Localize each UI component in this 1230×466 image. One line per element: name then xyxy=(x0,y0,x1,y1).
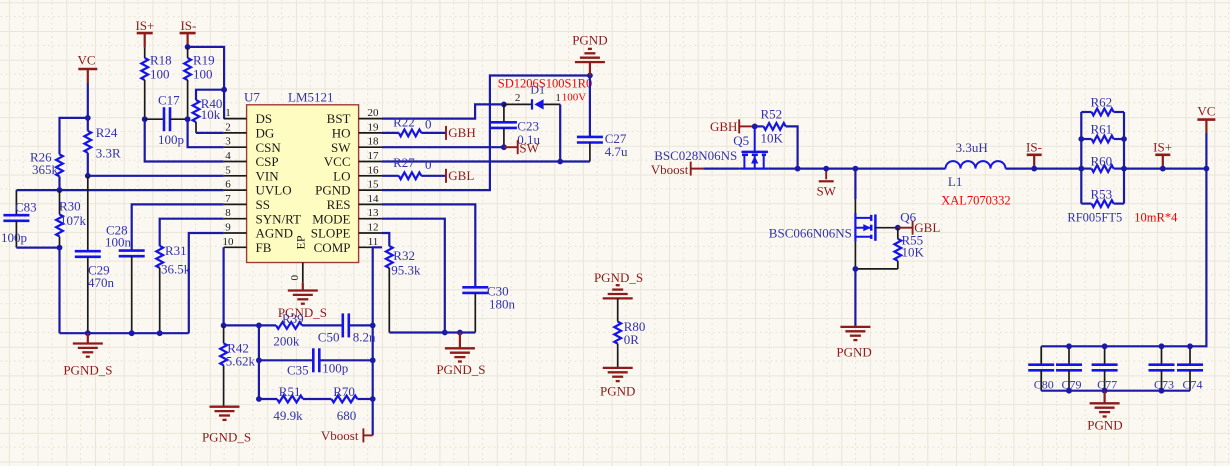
wire HO row (pin 19) xyxy=(382,132,446,134)
svg-text:0R: 0R xyxy=(624,332,640,347)
wire R26 bottom xyxy=(58,176,60,190)
svg-text:GBH: GBH xyxy=(710,119,737,134)
svg-text:10mR*4: 10mR*4 xyxy=(1134,211,1178,225)
capacitor C73 xyxy=(1149,346,1175,391)
svg-text:365k: 365k xyxy=(32,162,59,177)
pin 15 PGND xyxy=(315,179,382,198)
svg-text:HO: HO xyxy=(332,126,351,141)
svg-text:5.62k: 5.62k xyxy=(226,354,256,369)
transistor Q6 xyxy=(769,210,917,242)
svg-text:C17: C17 xyxy=(158,93,180,108)
svg-text:SLOPE: SLOPE xyxy=(311,226,351,241)
power IS- (right) xyxy=(1026,139,1042,168)
svg-text:2: 2 xyxy=(225,121,231,133)
node comp row3 left xyxy=(256,396,262,402)
wire cap bank bottom rail xyxy=(1041,390,1190,392)
node GBH/R52/gate xyxy=(752,124,758,130)
pin 5 VIN xyxy=(224,164,280,183)
svg-text:C80: C80 xyxy=(1034,378,1054,392)
resistor R32 xyxy=(382,233,421,333)
node C77 bottom junction xyxy=(1102,388,1108,394)
wire ground bus xyxy=(60,332,189,334)
D1 part number xyxy=(498,77,592,91)
pin 20 BST xyxy=(327,107,382,126)
resistor R52 xyxy=(755,107,798,169)
diode D1 xyxy=(504,83,561,110)
svg-text:2: 2 xyxy=(515,92,521,104)
node D1/VCC junction xyxy=(557,159,563,165)
wire PGND (pin 15) riser xyxy=(382,76,590,191)
svg-text:EP: EP xyxy=(294,235,308,249)
capacitor C28 xyxy=(105,223,145,334)
svg-text:PGND: PGND xyxy=(572,33,607,48)
wire comp row 3 xyxy=(259,398,373,400)
svg-text:VIN: VIN xyxy=(256,168,280,183)
svg-text:U7: U7 xyxy=(244,90,260,105)
resistor R24 xyxy=(84,118,121,176)
resistor R31 xyxy=(156,243,190,333)
svg-text:R27: R27 xyxy=(393,155,415,170)
pin 13 MODE xyxy=(312,207,382,226)
svg-text:19: 19 xyxy=(368,121,380,133)
node rail ground junction xyxy=(457,330,463,336)
wire R55 to source xyxy=(855,268,897,270)
resistor R26 xyxy=(30,150,63,178)
svg-text:36.5k: 36.5k xyxy=(161,262,191,277)
svg-text:100: 100 xyxy=(193,66,213,81)
pin 17 VCC xyxy=(324,150,382,169)
svg-text:XAL7070332: XAL7070332 xyxy=(941,194,1010,208)
wire row rail to VC xyxy=(1124,168,1206,170)
svg-text:5: 5 xyxy=(225,164,231,176)
svg-text:UVLO: UVLO xyxy=(256,183,292,198)
svg-text:180n: 180n xyxy=(489,297,516,312)
sense resistor value xyxy=(1134,211,1178,225)
svg-text:R32: R32 xyxy=(393,248,415,263)
resistor R18 xyxy=(141,48,171,120)
wire VC to R26 xyxy=(60,118,88,154)
svg-text:VCC: VCC xyxy=(324,154,351,169)
resistor R62 xyxy=(1081,95,1124,116)
pin 9 AGND xyxy=(224,222,293,241)
svg-text:VC: VC xyxy=(77,53,95,68)
wire SYN/RT row (pin 8) xyxy=(160,219,224,246)
wire Q6 source to ground xyxy=(854,269,856,327)
svg-text:BSC066N06NS: BSC066N06NS xyxy=(769,226,852,241)
svg-text:200k: 200k xyxy=(273,334,300,349)
ground PGND (Q6) xyxy=(836,327,871,360)
svg-text:C35: C35 xyxy=(287,363,309,378)
U7 designator xyxy=(244,90,260,105)
svg-text:10K: 10K xyxy=(902,245,925,260)
capacitor C83 xyxy=(1,190,37,248)
wire BST (pin 20) xyxy=(382,104,504,118)
svg-text:R39: R39 xyxy=(282,311,304,326)
node rail left R61 xyxy=(1078,136,1084,142)
wire IS- to DS (pin 1) xyxy=(188,47,225,119)
resistor R51 xyxy=(273,384,303,423)
node VC row junction xyxy=(1204,166,1210,172)
wire Q5 gate xyxy=(754,126,756,151)
svg-text:R24: R24 xyxy=(96,125,118,140)
op-amp U7 LM5121 body xyxy=(247,105,359,263)
node SW/C23 junction xyxy=(501,144,507,150)
svg-text:IS-: IS- xyxy=(1026,139,1042,154)
svg-text:100p: 100p xyxy=(158,132,184,147)
svg-text:4: 4 xyxy=(225,150,231,162)
resistor R22 xyxy=(393,115,431,137)
wire VIN row (pin 5) xyxy=(88,175,224,177)
capacitor C79 xyxy=(1056,346,1082,391)
wire Q6 source xyxy=(854,242,856,269)
ground PGND_S (C30 rail) xyxy=(436,333,485,378)
svg-text:SD1206S100S1R0: SD1206S100S1R0 xyxy=(498,77,592,91)
resistor R42 xyxy=(220,325,255,406)
resistor R55 xyxy=(894,228,924,269)
svg-text:DG: DG xyxy=(256,126,275,141)
power VC (left) xyxy=(77,53,97,84)
svg-text:3: 3 xyxy=(225,136,231,148)
pin 19 HO xyxy=(332,121,382,140)
capacitor C80 xyxy=(1028,346,1054,391)
capacitor C30 xyxy=(462,284,515,333)
pin 3 CSN xyxy=(224,136,282,155)
svg-text:10k: 10k xyxy=(201,107,221,122)
capacitor C50 xyxy=(318,313,376,344)
node rail right R60 xyxy=(1121,166,1127,172)
node DS/R40 junction xyxy=(221,87,227,93)
node R30/C83 junction xyxy=(57,245,63,251)
capacitor C74 xyxy=(1177,346,1203,391)
transistor Q5 xyxy=(654,133,769,169)
wire AGND row (pin 9) xyxy=(189,233,224,333)
svg-text:BST: BST xyxy=(327,111,351,126)
node IS- row junction xyxy=(1031,166,1037,172)
ground PGND_S (bus) xyxy=(63,333,112,377)
svg-text:IS-: IS- xyxy=(180,18,196,33)
svg-text:GBL: GBL xyxy=(448,168,474,183)
wire FB (pin 10) drop xyxy=(223,247,225,325)
svg-text:13: 13 xyxy=(368,207,380,219)
wire COMP (pin 11) drop xyxy=(373,247,382,435)
svg-text:R53: R53 xyxy=(1091,187,1113,202)
svg-text:6: 6 xyxy=(225,179,231,191)
resistor R60 xyxy=(1081,154,1124,173)
svg-text:18: 18 xyxy=(368,136,380,148)
svg-text:100p: 100p xyxy=(322,360,348,375)
svg-text:15: 15 xyxy=(368,179,380,191)
wire RES row (pin 14) xyxy=(382,204,475,287)
node SW label junction xyxy=(823,166,829,172)
svg-text:PGND: PGND xyxy=(1087,418,1122,433)
pin 10 FB xyxy=(223,236,272,255)
node PGND/C27 junction xyxy=(587,73,593,79)
svg-text:Vboost: Vboost xyxy=(651,162,689,177)
node gate/R55 junction xyxy=(895,225,901,231)
node R52/SW row xyxy=(795,166,801,172)
svg-text:PGND: PGND xyxy=(315,183,350,198)
wire comp row 1 xyxy=(224,324,373,326)
svg-text:CSN: CSN xyxy=(256,140,282,155)
svg-text:PGND_S: PGND_S xyxy=(594,270,643,285)
svg-text:8.2n: 8.2n xyxy=(353,330,376,345)
svg-text:10: 10 xyxy=(223,236,235,248)
resistor R61 xyxy=(1081,122,1124,143)
D1 voltage rating xyxy=(562,92,587,104)
resistor R40 xyxy=(193,90,225,133)
pin 6 UVLO xyxy=(224,179,292,198)
svg-text:SW: SW xyxy=(519,141,539,156)
svg-text:470n: 470n xyxy=(88,275,115,290)
svg-text:CSP: CSP xyxy=(256,154,279,169)
svg-text:RF005FT5: RF005FT5 xyxy=(1067,211,1122,225)
power IS+ (right) xyxy=(1153,139,1172,168)
svg-text:R31: R31 xyxy=(165,243,187,258)
node rail right R61 xyxy=(1121,136,1127,142)
svg-text:R70: R70 xyxy=(333,384,355,399)
svg-text:IS+: IS+ xyxy=(1153,139,1172,154)
capacitor C17 xyxy=(145,93,188,147)
node C28 bus junction xyxy=(129,330,135,336)
wire Vboost to Q5 drain xyxy=(691,168,745,170)
svg-text:PGND_S: PGND_S xyxy=(63,363,112,378)
svg-text:10K: 10K xyxy=(761,131,784,146)
svg-text:Q5: Q5 xyxy=(733,133,749,148)
wire C83 to R30 node xyxy=(16,247,59,249)
node rail left R60 xyxy=(1078,166,1084,172)
node C74 top junction xyxy=(1187,343,1193,349)
power IS- (left) xyxy=(180,18,197,47)
node C73 top junction xyxy=(1159,343,1165,349)
svg-text:4.7u: 4.7u xyxy=(605,144,628,159)
wire D1 to VCC row xyxy=(559,104,561,161)
wire Q6 gate xyxy=(875,227,897,229)
wire LO row (pin 16) xyxy=(382,175,446,177)
svg-text:LO: LO xyxy=(333,168,350,183)
pin 11 COMP xyxy=(314,236,382,255)
svg-text:RES: RES xyxy=(327,197,351,212)
svg-text:AGND: AGND xyxy=(256,226,294,241)
svg-text:12: 12 xyxy=(368,222,379,234)
wire UVLO row (pin 6) xyxy=(16,189,223,191)
resistor R70 xyxy=(331,384,357,423)
wire R18 to CSP (pin 4) xyxy=(145,119,224,161)
pin 7 SS xyxy=(224,193,270,212)
svg-text:0: 0 xyxy=(425,157,432,172)
node C29 bus junction xyxy=(85,330,91,336)
pin 16 LO xyxy=(333,164,382,183)
pin 18 SW xyxy=(331,136,382,155)
wire R30 node to bus xyxy=(58,248,60,334)
pin 1 DS xyxy=(224,107,272,126)
node comp right junction r1 xyxy=(370,323,376,329)
capacitor C77 xyxy=(1092,346,1118,391)
U7 value LM5121 xyxy=(288,90,334,105)
sense resistor part number xyxy=(1067,211,1122,225)
svg-text:1: 1 xyxy=(225,107,231,119)
wire VC stem (right) xyxy=(1205,133,1207,169)
svg-text:Vboost: Vboost xyxy=(321,428,359,443)
svg-text:7: 7 xyxy=(225,193,231,205)
capacitor C23 xyxy=(491,104,541,147)
svg-text:SS: SS xyxy=(256,197,270,212)
node IS- junction xyxy=(185,44,191,50)
svg-text:R22: R22 xyxy=(393,115,415,130)
node comp left junction xyxy=(256,323,262,329)
svg-text:95.3k: 95.3k xyxy=(391,263,421,278)
svg-text:100: 100 xyxy=(150,66,170,81)
wire SS row (pin 7) xyxy=(132,204,224,250)
svg-text:R61: R61 xyxy=(1091,122,1113,137)
resistor R27 xyxy=(393,155,431,179)
ground PGND (R80 bottom) xyxy=(600,368,635,399)
resistor R53 xyxy=(1081,187,1124,208)
net label GBH (right) xyxy=(710,119,755,134)
power VC (right) xyxy=(1197,104,1215,134)
inductor L1 xyxy=(946,140,1006,189)
node Q6 source junction xyxy=(853,266,859,272)
svg-text:100p: 100p xyxy=(1,230,27,245)
svg-text:L1: L1 xyxy=(948,174,962,189)
svg-text:0: 0 xyxy=(425,117,432,132)
ground PGND_S (R42) xyxy=(202,407,251,445)
svg-text:C83: C83 xyxy=(15,200,37,215)
svg-text:PGND: PGND xyxy=(836,345,871,360)
power IS+ (left) xyxy=(135,18,154,48)
svg-text:14: 14 xyxy=(368,193,380,205)
node comp row3 right xyxy=(370,396,376,402)
svg-text:20: 20 xyxy=(368,107,380,119)
node C77 top junction xyxy=(1102,343,1108,349)
svg-text:PGND_S: PGND_S xyxy=(202,430,251,445)
pin 14 RES xyxy=(327,193,382,212)
node comp row2 right xyxy=(370,357,376,363)
node FB junction xyxy=(221,323,227,329)
pin 12 SLOPE xyxy=(311,222,382,241)
resistor R39 xyxy=(273,311,303,349)
node R31 bus junction xyxy=(157,330,163,336)
svg-text:GBH: GBH xyxy=(448,125,475,140)
svg-text:R60: R60 xyxy=(1091,154,1113,169)
resistor R30 xyxy=(56,190,86,248)
svg-text:C74: C74 xyxy=(1183,378,1203,392)
net label SW (left) xyxy=(504,140,540,155)
wire SW main row xyxy=(769,168,946,170)
node C79 top junction xyxy=(1066,343,1072,349)
svg-text:FB: FB xyxy=(256,240,272,255)
net label SW (right) xyxy=(816,169,836,199)
svg-text:R52: R52 xyxy=(761,107,783,122)
pin EP xyxy=(289,235,307,290)
resistor R19 xyxy=(184,47,214,119)
wire sense left rail xyxy=(1080,112,1082,204)
svg-text:R62: R62 xyxy=(1091,95,1113,110)
wire VC down to cap bank xyxy=(1041,169,1206,347)
wire sense right rail xyxy=(1123,112,1125,204)
wire SW row (pin 18) xyxy=(382,146,504,148)
svg-text:107k: 107k xyxy=(60,213,87,228)
L1 part number xyxy=(941,194,1010,208)
wire Q6 drain xyxy=(854,169,856,213)
wire comp row 2 xyxy=(259,359,373,361)
svg-text:9: 9 xyxy=(225,222,231,234)
node R19/C17 junction xyxy=(185,116,191,122)
pin 2 DG xyxy=(224,121,275,140)
svg-text:R18: R18 xyxy=(150,53,172,68)
svg-text:680: 680 xyxy=(337,408,357,423)
svg-text:VC: VC xyxy=(1197,104,1215,119)
wire comp left rail xyxy=(258,325,260,399)
svg-text:PGND: PGND xyxy=(600,384,635,399)
capacitor C27 xyxy=(577,76,628,162)
svg-text:16: 16 xyxy=(368,164,380,176)
wire VCC row (pin 17) xyxy=(382,160,590,162)
node R18/C17 junction xyxy=(142,116,148,122)
svg-text:COMP: COMP xyxy=(314,240,351,255)
svg-text:PGND_S: PGND_S xyxy=(436,362,485,377)
pin 4 CSP xyxy=(224,150,279,169)
svg-text:100V: 100V xyxy=(562,92,587,104)
svg-text:0: 0 xyxy=(289,275,301,281)
node IS+ row junction xyxy=(1160,166,1166,172)
svg-text:SW: SW xyxy=(816,184,836,199)
net label Vboost (right) xyxy=(651,162,691,177)
wire row L1 to rail xyxy=(1006,168,1082,170)
svg-text:DS: DS xyxy=(256,111,273,126)
wire R32/C30 rail xyxy=(389,331,475,333)
svg-text:11: 11 xyxy=(368,236,379,248)
wire MODE row (pin 13) xyxy=(382,219,445,333)
node comp row2 left xyxy=(256,357,262,363)
power PGND_S (R80 top) xyxy=(594,270,643,298)
wire VC stem xyxy=(87,83,89,118)
net label GBH (left) xyxy=(446,125,476,140)
svg-text:SYN/RT: SYN/RT xyxy=(256,211,302,226)
capacitor C35 xyxy=(287,348,348,377)
net label Vboost (left) xyxy=(321,428,373,443)
svg-text:100n: 100n xyxy=(105,235,132,250)
node C73 bottom junction xyxy=(1159,388,1165,394)
wire R19 to CSN (pin 3) xyxy=(188,119,224,147)
svg-text:MODE: MODE xyxy=(312,211,350,226)
resistor R80 xyxy=(614,298,645,368)
ground PGND_S (EP) xyxy=(278,291,327,321)
node VIN junction xyxy=(85,173,91,179)
svg-text:BSC028N06NS: BSC028N06NS xyxy=(654,148,737,163)
node MODE rail junction xyxy=(442,330,448,336)
capacitor C29 xyxy=(75,176,115,333)
svg-text:3.3uH: 3.3uH xyxy=(956,140,988,155)
node Q6 drain row junction xyxy=(853,166,859,172)
svg-text:8: 8 xyxy=(225,207,231,219)
svg-text:49.9k: 49.9k xyxy=(273,408,303,423)
svg-text:R51: R51 xyxy=(279,384,301,399)
ground PGND (cap bank) xyxy=(1087,391,1122,433)
svg-text:C50: C50 xyxy=(318,330,340,345)
node BST/D1/C23 xyxy=(501,102,507,108)
node C79 bottom junction xyxy=(1066,388,1072,394)
power PGND (top) xyxy=(572,33,607,76)
svg-text:R30: R30 xyxy=(59,199,81,214)
svg-text:IS+: IS+ xyxy=(135,18,154,33)
svg-text:1: 1 xyxy=(555,92,561,104)
svg-text:17: 17 xyxy=(368,150,380,162)
node VC junction xyxy=(85,115,91,121)
net label GBL (left) xyxy=(446,168,474,183)
pin 8 SYN/RT xyxy=(224,207,301,226)
svg-text:LM5121: LM5121 xyxy=(288,90,334,105)
svg-text:R19: R19 xyxy=(193,53,215,68)
